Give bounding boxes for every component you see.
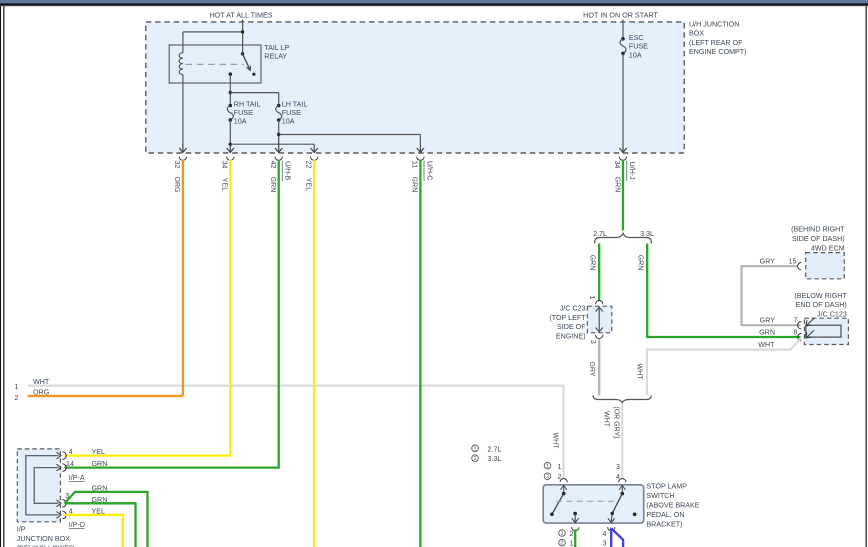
left window border inner — [3, 6, 5, 547]
svg-text:J/C C23: J/C C23 — [560, 305, 586, 313]
label 4WD ECM annotation — [791, 226, 845, 253]
connector arc I/P row1 — [62, 452, 66, 460]
svg-text:YEL: YEL — [221, 178, 228, 191]
svg-text:8: 8 — [794, 329, 798, 337]
svg-text:4WD ECM: 4WD ECM — [811, 245, 845, 253]
wire HOT IN ON OR START into box — [622, 20, 624, 39]
wire GRN ESC vertical — [622, 160, 624, 231]
label J/C C123 annotation — [794, 292, 847, 319]
svg-text:FUSE: FUSE — [282, 109, 301, 117]
J/C C123 box — [804, 318, 848, 344]
label WHT (OR GRY) — [603, 406, 620, 438]
svg-text:GRN: GRN — [92, 460, 108, 468]
connector arc pin 34 — [227, 157, 234, 161]
right window border — [865, 6, 867, 547]
wire 2 ORG horizontal — [28, 395, 183, 397]
svg-text:1: 1 — [588, 295, 595, 299]
wire YEL pin34 vertical — [65, 160, 231, 456]
svg-text:GRN: GRN — [759, 329, 775, 337]
stop lamp spare contact right — [633, 513, 637, 517]
svg-text:SWITCH: SWITCH — [646, 492, 674, 500]
svg-text:LH TAIL: LH TAIL — [282, 100, 308, 108]
wire GRN 3.3L branch — [647, 244, 800, 338]
svg-text:2.7L: 2.7L — [488, 445, 502, 453]
svg-text:(BELOW RIGHT: (BELOW RIGHT — [794, 292, 847, 300]
svg-text:WHT: WHT — [551, 433, 558, 450]
wire BLU stop lamp output diagonal branch — [611, 528, 623, 547]
U/H junction box (dashed, light blue) — [146, 22, 684, 153]
svg-text:10A: 10A — [629, 51, 642, 59]
wire from HOT AT ALL TIMES into box — [242, 20, 244, 32]
connector name U/H-J — [627, 161, 635, 182]
J/C C23 box — [587, 306, 611, 333]
svg-text:2: 2 — [561, 541, 564, 547]
wire YEL pin22 vertical — [313, 160, 315, 547]
svg-text:U/H JUNCTION: U/H JUNCTION — [689, 21, 739, 29]
legend circled 1 2.7L — [472, 445, 502, 453]
wire coil bottom to pin 32 exit — [182, 75, 184, 145]
svg-text:WHT: WHT — [758, 341, 775, 349]
svg-text:GRY: GRY — [760, 317, 776, 325]
engine split brace — [595, 233, 652, 243]
wire to pin 11 exit — [279, 135, 421, 147]
svg-text:I/P-A: I/P-A — [69, 474, 85, 482]
svg-text:BRACKET): BRACKET) — [646, 521, 682, 529]
I/P pin arrow row2 — [57, 464, 61, 471]
stop lamp left output exit arrow — [572, 514, 579, 523]
stop lamp mechanical dashed link — [556, 500, 618, 502]
wire GRN row3 upper — [65, 492, 148, 547]
stop lamp output contact left — [573, 512, 577, 516]
svg-text:3: 3 — [616, 463, 620, 471]
connector arc stop lamp pin 1/2 — [560, 479, 567, 483]
label LH TAIL FUSE 10A — [282, 100, 308, 125]
relay switch output contact — [229, 72, 233, 76]
svg-text:WHT: WHT — [603, 411, 610, 428]
connector arc pin 34 ESC — [619, 157, 626, 161]
svg-text:10A: 10A — [234, 118, 247, 126]
svg-text:ORG: ORG — [173, 177, 180, 193]
stop lamp right switch — [610, 492, 624, 515]
svg-text:34: 34 — [220, 161, 227, 169]
svg-text:3: 3 — [589, 340, 596, 344]
wire WHT from J/C C123 — [647, 338, 802, 396]
exit arrow pin 34 — [227, 146, 234, 152]
svg-text:WHT: WHT — [33, 378, 50, 386]
svg-text:TAIL LP: TAIL LP — [264, 44, 289, 52]
connector arc I/P row3 — [62, 500, 66, 508]
svg-text:GRN: GRN — [636, 255, 643, 271]
svg-text:ENGINE): ENGINE) — [556, 332, 586, 340]
svg-text:YEL: YEL — [305, 178, 312, 191]
label U/H JUNCTION BOX annotation — [689, 21, 747, 57]
J/C C23 internal bus arrow — [596, 307, 603, 332]
svg-text:RELAY: RELAY — [264, 53, 287, 61]
connector arc I/P row2 — [62, 464, 66, 472]
node RH fuse split — [229, 143, 232, 146]
svg-text:FUSE: FUSE — [234, 109, 253, 117]
connector arc pin 11 — [417, 157, 424, 161]
stop lamp switch box — [543, 485, 644, 523]
connector arc pin 42 — [275, 157, 282, 161]
legend circled 2 3.3L — [472, 455, 502, 463]
connector name U/H-B — [282, 161, 290, 182]
svg-text:42: 42 — [269, 161, 276, 169]
I/P junction box — [17, 449, 60, 522]
node LH fuse split — [277, 133, 280, 136]
svg-text:HOT IN ON OR START: HOT IN ON OR START — [583, 11, 658, 20]
4WD ECM box — [806, 253, 845, 279]
left window border outer — [0, 6, 2, 547]
svg-text:2.7L: 2.7L — [593, 230, 607, 238]
svg-text:1: 1 — [558, 463, 562, 471]
wire fuse feed across — [230, 92, 278, 94]
wire GRN pin11 vertical — [419, 160, 421, 547]
node fuse feed junction — [229, 91, 232, 94]
svg-text:4: 4 — [603, 530, 607, 538]
label I/P JUNCTION BOX annotation — [17, 525, 75, 547]
svg-text:U/H-B: U/H-B — [284, 161, 291, 180]
svg-text:(BEHIND RIGHT: (BEHIND RIGHT — [791, 226, 845, 234]
I/P pin arrow row1 — [57, 452, 61, 459]
svg-text:2: 2 — [15, 394, 19, 402]
label RH TAIL FUSE 10A — [234, 100, 261, 125]
I/P pin arrow row3 — [57, 500, 61, 507]
svg-text:2: 2 — [546, 474, 549, 480]
wire to pin 22 exit — [230, 144, 314, 146]
wire 1 WHT horizontal — [28, 386, 564, 479]
I/P pin arrow row4 — [57, 512, 61, 519]
exit arrow pin 11 — [417, 146, 424, 152]
svg-text:WHT: WHT — [636, 364, 643, 381]
svg-text:2: 2 — [570, 530, 574, 538]
stop lamp switch pin labels bottom — [559, 530, 607, 547]
svg-text:ENGINE COMPT): ENGINE COMPT) — [689, 48, 747, 56]
wire YEL row4 — [65, 515, 123, 547]
relay coil — [179, 53, 183, 75]
svg-text:SIDE OF: SIDE OF — [557, 323, 586, 331]
tail lp relay K1 box — [169, 45, 261, 83]
connector arc J/C C23 top — [596, 301, 603, 305]
node relay feed junction — [241, 30, 244, 33]
stop lamp left switch — [550, 492, 565, 516]
svg-text:ORG: ORG — [33, 388, 50, 396]
svg-text:JUNCTION BOX: JUNCTION BOX — [17, 535, 70, 543]
svg-text:1: 1 — [15, 383, 19, 391]
wire ESC fuse down — [622, 53, 624, 146]
svg-text:PEDAL, ON: PEDAL, ON — [646, 511, 684, 519]
I/P outer bus pin4 to pin4 — [26, 456, 59, 515]
label STOP LAMP SWITCH annotation — [646, 483, 699, 529]
label TAIL LP RELAY — [264, 44, 289, 61]
wire relay output down — [229, 74, 231, 92]
svg-text:(ABOVE BRAKE: (ABOVE BRAKE — [646, 502, 699, 510]
wire GRY down from J/C C23 — [598, 339, 600, 396]
svg-text:(TOP LEFT: (TOP LEFT — [549, 314, 586, 322]
connector arc pin 32 — [179, 157, 186, 161]
svg-text:GRN: GRN — [411, 177, 418, 193]
fuse ESC 10A — [620, 37, 626, 55]
svg-text:FUSE: FUSE — [629, 43, 648, 51]
svg-text:7: 7 — [794, 317, 798, 325]
J/C C123 busbar — [806, 325, 841, 337]
svg-text:HOT AT ALL TIMES: HOT AT ALL TIMES — [209, 11, 272, 20]
connector arc 4WD ECM pin15 — [798, 263, 802, 270]
fuse RH TAIL 10A — [227, 104, 233, 122]
exit arrow pin 34 ESC — [619, 146, 626, 152]
label J/C C23 annotation — [549, 305, 586, 341]
svg-text:BOX: BOX — [689, 30, 704, 38]
stop lamp switch right pin entry arrow — [619, 485, 625, 493]
connector arc I/P row4 — [62, 511, 66, 519]
wire BLU stop lamp output vertical — [610, 528, 612, 547]
svg-text:I/P-D: I/P-D — [69, 521, 85, 529]
svg-text:34: 34 — [613, 161, 620, 169]
svg-text:J/C C123: J/C C123 — [817, 310, 847, 318]
wire WHT (OR GRY) down to switch — [621, 403, 623, 479]
stop lamp right output exit arrow — [608, 513, 615, 522]
svg-text:10A: 10A — [282, 118, 295, 126]
wire GRN row3 lower — [65, 503, 136, 547]
fuse LH TAIL 10A — [276, 104, 282, 122]
svg-text:RH TAIL: RH TAIL — [234, 100, 261, 108]
svg-text:GRY: GRY — [588, 361, 595, 376]
svg-text:GRN: GRN — [269, 177, 276, 193]
svg-text:1: 1 — [561, 531, 564, 537]
exit arrow pin 32 — [179, 144, 186, 152]
stop lamp switch pin labels top — [544, 462, 620, 481]
wire ORG pin32 vertical — [182, 160, 184, 396]
svg-text:GRN: GRN — [613, 177, 620, 193]
connector arc J/C C123 pin7 — [798, 322, 802, 329]
wire LH fuse down — [278, 120, 280, 135]
wire GRN 2.7L branch — [598, 244, 600, 301]
svg-text:1: 1 — [474, 446, 477, 452]
wire GRY to 4WD ECM and J/C C123 pin7 — [742, 266, 801, 325]
svg-text:2: 2 — [474, 456, 477, 462]
connector name U/H-C — [424, 161, 432, 182]
svg-text:GRY: GRY — [760, 258, 776, 266]
svg-text:YEL: YEL — [92, 448, 106, 456]
svg-text:1: 1 — [546, 464, 549, 470]
svg-text:END OF DASH): END OF DASH) — [796, 301, 847, 309]
connector arc stop lamp bottom left — [572, 527, 579, 531]
exit arrow pin 22 — [311, 146, 318, 152]
svg-text:1: 1 — [570, 540, 574, 547]
wire RH fuse down — [229, 120, 231, 144]
svg-text:3.3L: 3.3L — [488, 455, 502, 463]
wire relay feed top — [183, 32, 243, 54]
svg-text:(OR GRY): (OR GRY) — [613, 406, 620, 438]
svg-text:32: 32 — [173, 161, 180, 169]
relay internal dashed link — [186, 63, 245, 65]
svg-text:SIDE OF DASH): SIDE OF DASH) — [792, 235, 845, 243]
wire GRN pin42 vertical — [65, 160, 279, 468]
J/C C123 pin8 arrow — [806, 330, 814, 338]
svg-text:3.3L: 3.3L — [640, 230, 654, 238]
top chrome bar — [0, 0, 868, 6]
svg-text:ESC: ESC — [629, 34, 644, 42]
svg-text:3: 3 — [603, 540, 607, 547]
connector arc J/C C23 bottom — [596, 335, 603, 339]
wire GRN stop lamp output — [574, 530, 576, 547]
connector arc stop lamp bottom right — [608, 527, 615, 531]
svg-text:GRN: GRN — [589, 255, 596, 271]
svg-text:I/P: I/P — [17, 525, 26, 533]
label ESC FUSE 10A — [629, 34, 648, 59]
svg-text:11: 11 — [411, 161, 418, 168]
svg-text:(LEFT REAR OF: (LEFT REAR OF — [689, 39, 743, 47]
svg-text:U/H-C: U/H-C — [425, 161, 432, 180]
J/C C123 pin7 arrow — [806, 318, 814, 326]
svg-text:U/H-J: U/H-J — [628, 162, 635, 180]
exit arrow pin 42 — [275, 136, 282, 152]
svg-text:22: 22 — [304, 161, 311, 169]
svg-text:4: 4 — [69, 448, 73, 456]
relay switch arm — [241, 52, 256, 76]
svg-text:15: 15 — [789, 258, 797, 266]
svg-text:STOP LAMP: STOP LAMP — [646, 483, 687, 491]
connector arc stop lamp pin 3/4 — [619, 479, 626, 483]
merge brace — [593, 395, 651, 403]
connector arc J/C C123 pin8 — [798, 333, 802, 340]
svg-text:14: 14 — [66, 460, 74, 468]
stop lamp switch left pin entry arrow — [561, 485, 567, 493]
connector arc pin 22 — [311, 157, 318, 161]
I/P inner bus pin14 to pin3 — [34, 468, 58, 504]
